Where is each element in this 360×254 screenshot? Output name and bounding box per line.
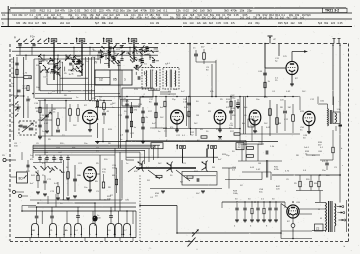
- svg-text:120p: 120p: [231, 98, 237, 100]
- svg-text:C34: C34: [224, 22, 229, 25]
- svg-text:1n0: 1n0: [156, 9, 161, 13]
- svg-text:R12: R12: [195, 17, 200, 20]
- svg-text:470k: 470k: [231, 9, 238, 13]
- svg-text:25: 25: [153, 144, 157, 148]
- svg-text:25p: 25p: [247, 9, 252, 13]
- svg-text:10n: 10n: [126, 9, 131, 13]
- svg-text:10n: 10n: [150, 22, 155, 25]
- svg-text:15k: 15k: [240, 9, 245, 13]
- svg-text:80p: 80p: [255, 22, 260, 25]
- svg-text:2n2: 2n2: [246, 17, 251, 20]
- svg-text:0.05: 0.05: [30, 9, 36, 13]
- svg-text:5p6: 5p6: [95, 22, 100, 25]
- svg-text:1n0: 1n0: [225, 17, 230, 20]
- svg-text:2n2: 2n2: [109, 22, 114, 25]
- svg-text:R25: R25: [278, 22, 283, 25]
- svg-text:47k: 47k: [106, 9, 111, 13]
- svg-text:3k: 3k: [69, 74, 71, 76]
- svg-text:330: 330: [150, 9, 155, 13]
- svg-text:750: 750: [253, 17, 258, 20]
- svg-text:5p6: 5p6: [306, 13, 311, 17]
- svg-text:12: 12: [99, 78, 103, 82]
- svg-text:1M: 1M: [288, 107, 291, 109]
- svg-text:1k0: 1k0: [77, 17, 82, 20]
- svg-text:2k2: 2k2: [130, 17, 135, 20]
- svg-text:R12: R12: [28, 22, 33, 25]
- svg-text:TR21 3-2: TR21 3-2: [325, 9, 339, 13]
- svg-text:R25: R25: [176, 17, 181, 20]
- svg-text:15k: 15k: [18, 13, 23, 17]
- svg-text:5p6: 5p6: [133, 9, 138, 13]
- svg-text:1M: 1M: [90, 17, 93, 20]
- svg-text:1n: 1n: [123, 52, 125, 54]
- svg-text:12k: 12k: [124, 13, 129, 17]
- svg-text:50u: 50u: [120, 9, 125, 13]
- svg-text:C34: C34: [12, 13, 17, 17]
- svg-text:8p2: 8p2: [95, 17, 100, 20]
- svg-text:0.1: 0.1: [47, 9, 51, 13]
- svg-text:2k2: 2k2: [291, 22, 296, 25]
- svg-text:1n0: 1n0: [263, 17, 268, 20]
- svg-text:1M: 1M: [156, 51, 159, 53]
- svg-text:0.05: 0.05: [234, 13, 240, 17]
- svg-text:8p2: 8p2: [151, 17, 156, 20]
- svg-text:3k3: 3k3: [224, 9, 229, 13]
- svg-text:6k8: 6k8: [47, 17, 52, 20]
- svg-text:0.05: 0.05: [338, 22, 343, 25]
- svg-text:·: ·: [354, 4, 355, 8]
- svg-text:o↑: o↑: [274, 38, 277, 41]
- svg-text:C7: C7: [24, 13, 28, 17]
- svg-text:PU: PU: [2, 155, 5, 157]
- svg-text:·l·: ·l·: [196, 249, 198, 251]
- svg-text:0.02: 0.02: [75, 9, 81, 13]
- svg-text:3k: 3k: [71, 73, 73, 75]
- svg-text:⅟ 2×: ⅟ 2×: [30, 36, 35, 39]
- svg-text:M: M: [320, 218, 322, 220]
- svg-text:1M: 1M: [258, 163, 261, 165]
- svg-text:470k: 470k: [137, 17, 143, 20]
- svg-text:0.1: 0.1: [163, 9, 167, 13]
- svg-text:R12: R12: [40, 9, 46, 13]
- svg-text:5p6: 5p6: [284, 22, 289, 25]
- svg-text:220: 220: [293, 17, 298, 20]
- svg-text:4n7: 4n7: [35, 22, 40, 25]
- svg-text:3k3: 3k3: [84, 9, 89, 13]
- svg-text:47k: 47k: [60, 9, 65, 13]
- svg-text:330: 330: [16, 22, 21, 25]
- svg-text:220: 220: [70, 17, 75, 20]
- svg-text:50u: 50u: [170, 17, 175, 20]
- svg-text:330: 330: [298, 22, 303, 25]
- svg-text:3k3: 3k3: [209, 22, 214, 25]
- svg-text:50u: 50u: [202, 17, 207, 20]
- svg-text:1M: 1M: [55, 9, 60, 13]
- svg-text:10n: 10n: [183, 22, 188, 25]
- svg-text:2n2: 2n2: [240, 17, 245, 20]
- svg-text:1n0: 1n0: [190, 22, 195, 25]
- svg-text:3k3: 3k3: [207, 9, 212, 13]
- svg-text:2k2: 2k2: [212, 17, 217, 20]
- svg-text:4n7: 4n7: [145, 17, 150, 20]
- svg-text:· 1 ·: · 1 ·: [148, 248, 152, 250]
- svg-text:0.1: 0.1: [2, 13, 6, 17]
- svg-text:1k0: 1k0: [66, 22, 71, 25]
- svg-text:0.02: 0.02: [163, 13, 169, 17]
- svg-text:1M: 1M: [196, 115, 199, 117]
- svg-text:1n0: 1n0: [300, 17, 305, 20]
- svg-text:750: 750: [60, 17, 65, 20]
- svg-text:1M: 1M: [66, 179, 69, 181]
- svg-text:47k: 47k: [11, 95, 14, 97]
- svg-text:50u: 50u: [182, 17, 187, 20]
- svg-text:1M: 1M: [278, 123, 281, 125]
- svg-text:1M: 1M: [156, 22, 159, 25]
- svg-text:0.05: 0.05: [216, 22, 221, 25]
- svg-text:12k: 12k: [68, 9, 73, 13]
- svg-text:750: 750: [34, 17, 39, 20]
- svg-text:2n2: 2n2: [280, 17, 285, 20]
- svg-text:80p: 80p: [114, 17, 119, 20]
- svg-text:4n7: 4n7: [287, 17, 292, 20]
- svg-text:2k2: 2k2: [60, 22, 65, 25]
- svg-text:1k0: 1k0: [200, 9, 205, 13]
- svg-text:1n: 1n: [11, 77, 13, 79]
- svg-text:R12: R12: [113, 9, 119, 13]
- svg-text:5p6: 5p6: [318, 22, 323, 25]
- svg-text:470k: 470k: [83, 17, 89, 20]
- svg-text:8p2: 8p2: [53, 17, 58, 20]
- svg-text:0047: 0047: [122, 101, 128, 103]
- svg-text:220: 220: [331, 22, 336, 25]
- svg-text:¶: ¶: [9, 9, 11, 13]
- svg-text:05: 05: [113, 78, 117, 82]
- svg-text:560: 560: [219, 17, 224, 20]
- svg-text:12: 12: [238, 145, 242, 149]
- svg-text:470k: 470k: [141, 9, 148, 13]
- svg-text:12k: 12k: [176, 9, 181, 13]
- svg-text:2n2: 2n2: [248, 22, 253, 25]
- svg-text:Z2: Z2: [316, 227, 320, 231]
- svg-text:0.02: 0.02: [91, 9, 97, 13]
- svg-text:100p: 100p: [112, 168, 118, 170]
- svg-text:1k0: 1k0: [193, 9, 198, 13]
- svg-text:1M: 1M: [259, 17, 262, 20]
- svg-text:· ·: · ·: [331, 35, 333, 38]
- svg-text:1n0: 1n0: [188, 17, 193, 20]
- svg-text:8Ω: 8Ω: [19, 177, 24, 181]
- svg-text:0.02: 0.02: [183, 9, 189, 13]
- svg-text:0.1: 0.1: [29, 13, 33, 17]
